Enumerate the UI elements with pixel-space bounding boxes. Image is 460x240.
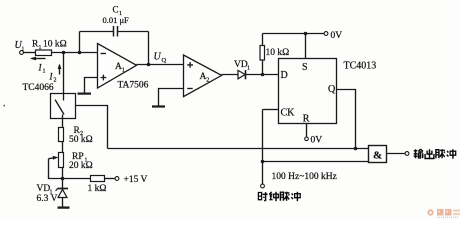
svg-text:Q: Q [162,57,167,64]
svg-text:R: R [303,114,310,125]
label Q pin [328,84,336,95]
label VD1 [234,60,250,71]
wire feedback up from J2 [79,32,81,53]
wire A1 plus input to ground [85,78,98,93]
label 100 Hz ~ 100 kHz [272,172,337,182]
zener diode VD (cathode bar with wing) [58,188,69,190]
terminal output pulse [405,152,409,156]
wire feedback top right segment [118,31,149,33]
AND gate (box) [369,146,387,163]
label I1 [38,63,46,75]
label RP1 20k [69,152,93,171]
wire clock line2 to AND gate [263,161,369,163]
wire resistor bottom to D node [262,60,264,75]
svg-text:10 kΩ: 10 kΩ [43,40,67,50]
svg-text:U: U [154,52,162,63]
svg-text:TA7506: TA7506 [118,81,149,91]
resistor 1k (body) [91,176,105,182]
label +15 V [124,175,148,185]
wire feedback top left segment [80,31,114,33]
label output pulse (CJK drawn) [414,149,456,159]
minus sign A2 [187,88,193,90]
input terminal Ui [20,51,24,55]
ground A2 [152,105,165,107]
svg-text:&: & [373,150,382,162]
node D junction [261,73,265,77]
ground A1 [78,92,92,94]
wire wiper short to bottom [49,159,63,179]
label I2 [49,72,57,84]
zener diode VD (triangle) [58,189,67,197]
plus sign A2 [187,62,193,68]
svg-text:CK: CK [281,108,296,119]
analog switch TC4066 (box) [51,94,76,119]
wire R2 to RP1 [62,142,64,153]
resistor R2 (body) [59,128,64,142]
svg-text:1: 1 [43,69,46,75]
diode VD1 (triangle) [238,70,245,78]
flip-flop TC4013 (box) [279,59,337,124]
node J2 junction to feedback [78,51,82,55]
svg-text:i: i [22,46,24,53]
speck artifact [4,105,6,107]
minus sign A1 [101,53,107,55]
label TC4066 [23,83,54,93]
svg-text:100 Hz~100 kHz: 100 Hz~100 kHz [272,172,337,182]
wire to 1k resistor [63,178,91,180]
wire A2 minus input to ground [159,89,184,106]
label R2 50k [69,126,93,145]
wire 1k to +15V terminal [105,178,116,180]
node Q feedback junction [354,147,358,151]
label R1 10 kOhm [32,40,67,51]
svg-text:S: S [302,62,308,73]
wire diode to D input [246,74,279,76]
switch arm (diagonal) [55,100,64,115]
node S junction on 0V rail [304,32,308,36]
label 0V top [331,31,343,41]
svg-text:0.01 μF: 0.01 μF [103,15,130,25]
wire zener to ground [62,198,64,208]
node J1 junction to switch branch [62,51,66,55]
label A1 [115,62,125,73]
label & [373,150,382,162]
svg-text:1 kΩ: 1 kΩ [88,184,107,194]
wire R pin to 0V [306,124,308,138]
current arrow I1 [30,57,46,61]
terminal clock input [261,184,265,188]
svg-text:2: 2 [206,77,209,83]
label Ui [15,40,25,53]
label TC4013 [344,61,377,72]
label clock pulse (CJK drawn) [258,192,300,202]
watermark logo [427,209,460,218]
label S pin [302,62,308,73]
svg-text:1: 1 [122,67,125,73]
label R pin [303,114,310,125]
wire top 0V rail [263,33,325,35]
svg-text:2: 2 [54,78,57,84]
svg-text:VD: VD [234,60,248,70]
node +15V junction [61,177,65,181]
wire Ui to R1 [24,52,36,54]
wire A2 output to diode [222,74,238,76]
wire AND output [387,153,406,155]
label D pin [281,70,288,81]
node UQ junction [147,63,151,67]
svg-text:20 kΩ: 20 kΩ [69,161,93,171]
ground bar bottom [58,206,70,208]
wire clock vertical [262,110,264,185]
wire R1 to A1 inverting input [52,52,98,54]
label TA7506 [118,81,149,91]
wire resistor top [262,34,264,46]
diode VD1 cathode bar [245,70,247,79]
svg-text:10 kΩ: 10 kΩ [266,48,290,58]
op-amp A1 (triangle) [98,44,137,89]
label 6.3 V [37,194,58,204]
svg-text:50 kΩ: 50 kΩ [69,135,93,145]
label C1 [113,5,123,17]
label UQ [154,52,167,65]
wire S pin [305,34,307,59]
resistor 10k pullup (body) [260,46,265,61]
svg-text:0V: 0V [331,31,343,41]
terminal +15V [115,177,119,181]
capacitor C1 (plates) [114,26,118,37]
svg-text:0V: 0V [311,136,323,146]
svg-text:TC4066: TC4066 [23,83,54,93]
op-amp A2 (triangle) [184,55,222,97]
svg-text:+15 V: +15 V [124,175,148,185]
current arrow I2 [58,64,62,75]
wire switch bottom to R2 [62,115,64,128]
svg-text:1: 1 [39,45,42,51]
node clock junction [261,160,265,164]
label CK pin [281,108,296,119]
wire feedback down to UQ node [148,32,150,65]
wire A1 output to A2 (UQ net) [137,64,184,66]
label 0.01 uF [103,15,130,25]
wire CK input [263,109,279,111]
svg-text:VD: VD [37,184,51,194]
terminal 0V top [324,32,328,36]
wire net line1 to AND gate [108,148,369,150]
wire J1 down into switch box [63,53,65,101]
svg-text:Q: Q [328,84,336,95]
label 10 kOhm [266,48,290,58]
svg-text:6.3 V: 6.3 V [37,194,58,204]
label A2 [200,72,210,83]
wire Q output [337,90,356,149]
label 1 kOhm [88,184,107,194]
label 0V bottom [311,136,323,146]
svg-text:1: 1 [247,65,250,71]
svg-text:D: D [281,70,288,81]
terminal 0V bottom [305,137,309,141]
potentiometer RP1 (body) [59,153,64,168]
svg-text:TC4013: TC4013 [344,61,377,72]
wire switch control line [76,106,108,149]
plus sign A1 [101,75,107,81]
label VD zener [37,184,53,195]
svg-text:C: C [113,5,119,15]
wiper arrow RP1 [49,156,59,160]
wire RP1 bottom to zener [62,168,64,189]
resistor R1 10k (body) [36,50,52,56]
